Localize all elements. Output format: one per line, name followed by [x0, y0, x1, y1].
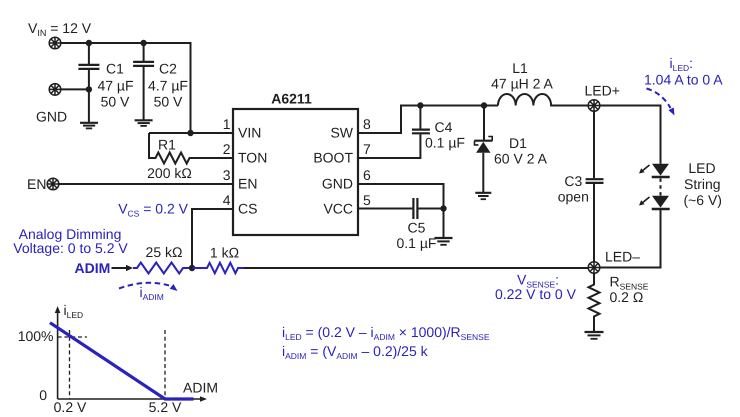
graph dashed guides — [58, 330, 165, 399]
svg-text:EN: EN — [238, 176, 257, 192]
wire VIN rail to pin1 node — [61, 43, 191, 133]
graph axes — [55, 306, 207, 402]
svg-text:0: 0 — [39, 387, 47, 403]
svg-text:1 kΩ: 1 kΩ — [210, 245, 239, 261]
svg-text:VCC: VCC — [323, 201, 353, 217]
terminal VIN — [49, 37, 61, 49]
wire pin 6 GND — [358, 184, 444, 237]
wire 1k to LED- node — [244, 267, 588, 269]
wire GND terminal to C1 — [61, 88, 89, 90]
node ADIM/CS junction — [189, 265, 195, 271]
ground RSENSE — [585, 332, 604, 339]
svg-text:5.2 V: 5.2 V — [149, 399, 182, 415]
svg-text:3: 3 — [223, 167, 231, 183]
wire dashed LED interconnect — [660, 179, 662, 196]
resistor 25k — [133, 263, 192, 274]
wire LED+ to string — [600, 106, 661, 164]
node C4 junction — [417, 102, 423, 108]
svg-text:2: 2 — [223, 141, 231, 157]
svg-text:6: 6 — [363, 167, 371, 183]
svg-text:1: 1 — [223, 116, 231, 132]
svg-text:5: 5 — [363, 192, 371, 208]
resistor RSENSE — [589, 273, 600, 331]
capacitor C3 — [586, 111, 604, 261]
svg-text:C3: C3 — [564, 173, 582, 189]
svg-text:C1: C1 — [106, 60, 124, 76]
capacitor C4 — [358, 106, 430, 159]
node VIN/R1 junction — [187, 130, 193, 136]
ground C1 — [80, 123, 98, 129]
svg-text:100%: 100% — [18, 328, 54, 344]
LED D3 — [639, 196, 670, 209]
node C1/GND junction — [86, 86, 92, 92]
arrow ADIM — [112, 267, 128, 269]
svg-text:Voltage: 0 to 5.2 V: Voltage: 0 to 5.2 V — [13, 240, 128, 256]
terminal LED+ — [588, 100, 600, 112]
svg-text:C5: C5 — [408, 220, 426, 236]
svg-text:50 V: 50 V — [154, 94, 183, 110]
capacitor C5 — [358, 198, 444, 219]
terminal EN — [47, 178, 59, 190]
capacitor C1 — [78, 43, 99, 122]
svg-text:0.2 Ω: 0.2 Ω — [610, 289, 644, 305]
ground IC — [435, 238, 453, 245]
svg-text:C4: C4 — [435, 119, 453, 135]
svg-text:EN: EN — [27, 176, 46, 192]
graph iLED curve — [50, 323, 194, 399]
svg-text:ADIM: ADIM — [183, 380, 218, 396]
wire pin 1 VIN — [149, 132, 233, 134]
svg-text:A6211: A6211 — [271, 91, 312, 107]
svg-text:TON: TON — [238, 150, 267, 166]
svg-text:LED–: LED– — [605, 249, 640, 265]
diode D1 schottky — [474, 106, 492, 193]
svg-text:47 µH 2 A: 47 µH 2 A — [491, 76, 553, 92]
svg-text:8: 8 — [363, 116, 371, 132]
svg-text:0.22 V to 0 V: 0.22 V to 0 V — [495, 286, 577, 302]
svg-text:VIN: VIN — [238, 125, 261, 141]
wire string return — [600, 209, 661, 268]
op-amp U1 A6211 IC body — [233, 109, 358, 235]
svg-text:GND: GND — [36, 109, 67, 125]
svg-text:200 kΩ: 200 kΩ — [147, 165, 192, 181]
svg-text:47 µF: 47 µF — [97, 77, 133, 93]
svg-text:(~6 V): (~6 V) — [683, 192, 722, 208]
svg-text:4.7 µF: 4.7 µF — [148, 77, 188, 93]
svg-text:25 kΩ: 25 kΩ — [146, 244, 183, 260]
LED D2 — [639, 164, 670, 177]
svg-text:7: 7 — [363, 141, 371, 157]
svg-text:CS: CS — [238, 201, 257, 217]
svg-text:D1: D1 — [509, 135, 527, 151]
svg-text:0.1 µF: 0.1 µF — [425, 135, 465, 151]
inductor L1 — [498, 94, 588, 106]
svg-text:R1: R1 — [158, 137, 176, 153]
svg-text:BOOT: BOOT — [313, 150, 353, 166]
resistor R1 — [149, 133, 233, 164]
svg-text:0.1 µF: 0.1 µF — [397, 235, 437, 251]
node C1 top junction — [86, 40, 92, 46]
wire pin 8 SW to switch node — [358, 106, 498, 134]
svg-text:SW: SW — [330, 125, 353, 141]
arrow iLED dashed — [647, 89, 671, 109]
terminal LED- — [588, 262, 600, 274]
svg-text:LED+: LED+ — [585, 83, 620, 99]
ground D1 — [475, 193, 491, 199]
wire pin 4 CS — [192, 209, 233, 268]
arrow iADIM dashed — [119, 283, 171, 289]
svg-text:0.2 V: 0.2 V — [54, 399, 87, 415]
svg-text:C2: C2 — [159, 60, 177, 76]
svg-text:L1: L1 — [512, 60, 528, 76]
capacitor C2 — [133, 43, 154, 120]
node D1 junction — [481, 102, 487, 108]
svg-text:open: open — [558, 189, 589, 205]
svg-text:50 V: 50 V — [101, 94, 130, 110]
svg-text:LED: LED — [688, 160, 715, 176]
wire EN to pin 3 — [59, 183, 233, 185]
ground C2 — [135, 120, 153, 126]
svg-text:ADIM: ADIM — [75, 260, 111, 276]
svg-text:1.04 A to 0 A: 1.04 A to 0 A — [644, 72, 723, 88]
resistor 1k — [192, 263, 244, 273]
node VCC/GND junction — [440, 205, 446, 211]
svg-text:60 V 2 A: 60 V 2 A — [494, 151, 548, 167]
node C2 top junction — [140, 40, 146, 46]
svg-text:4: 4 — [223, 192, 231, 208]
terminal GND — [49, 84, 61, 96]
svg-text:GND: GND — [322, 176, 353, 192]
svg-text:String: String — [684, 176, 721, 192]
